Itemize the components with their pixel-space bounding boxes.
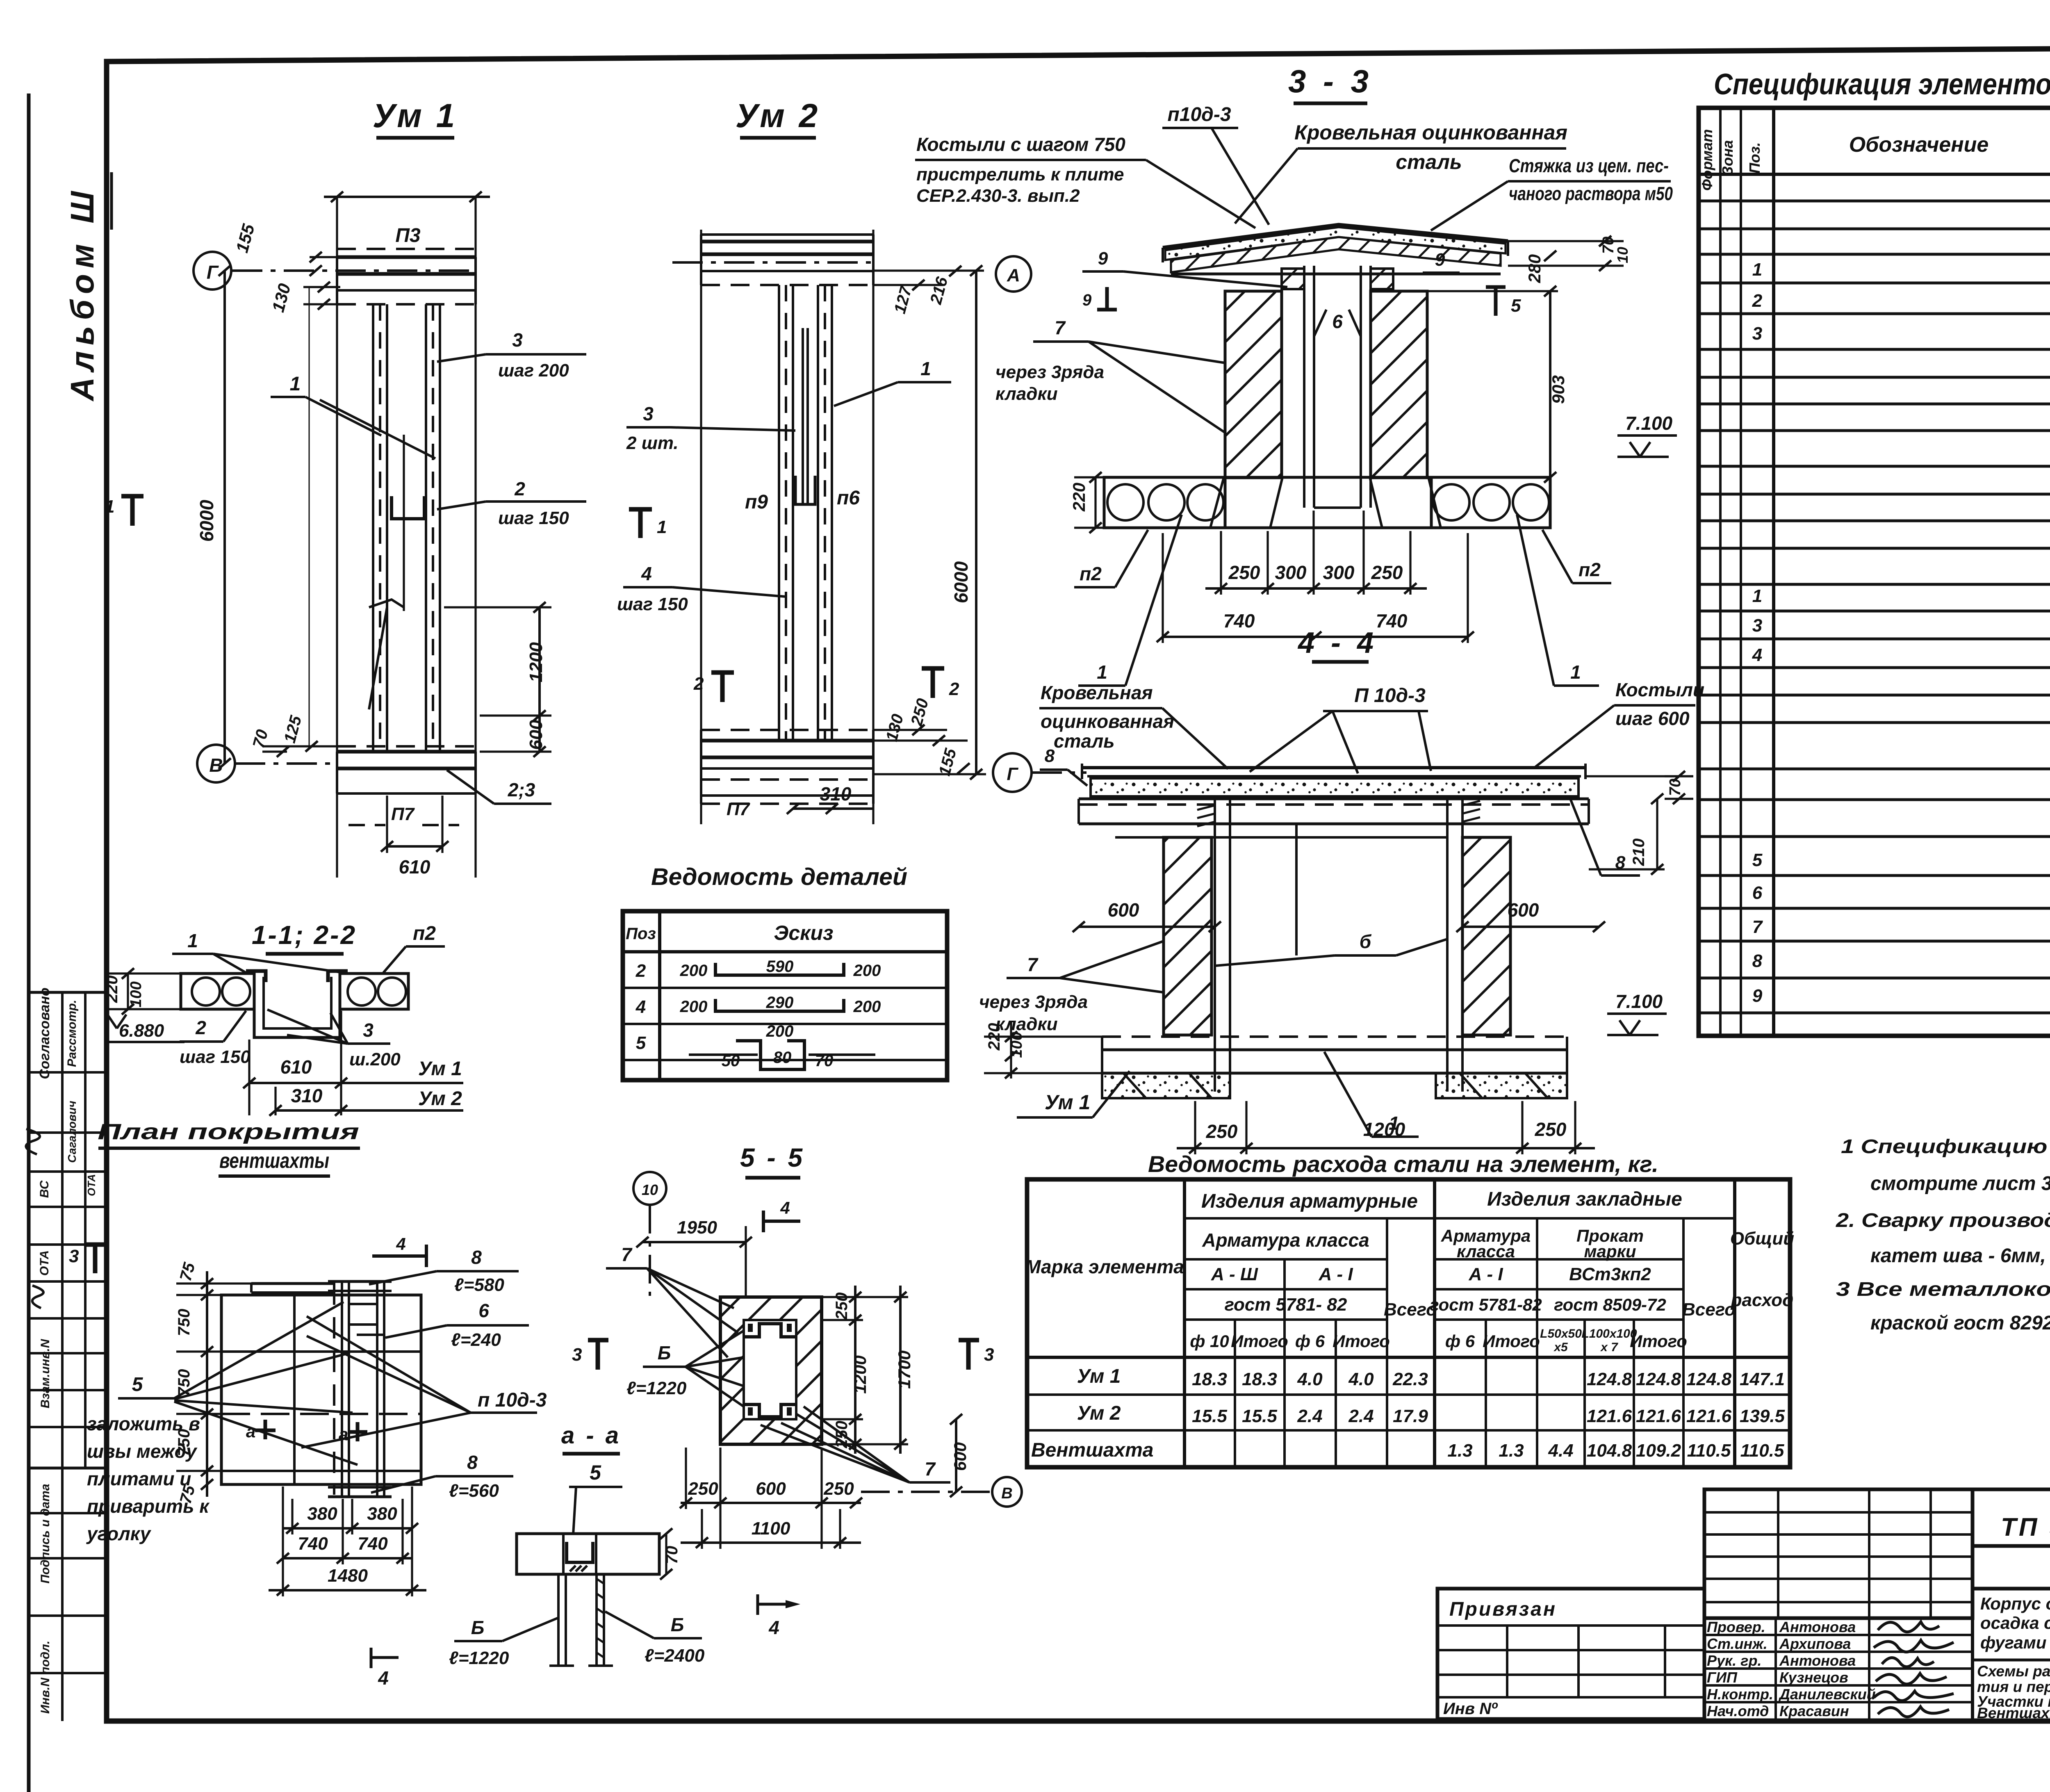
svg-text:5: 5 (1752, 850, 1763, 870)
svg-text:Общий: Общий (1730, 1229, 1794, 1249)
svg-text:6000: 6000 (950, 561, 972, 603)
svg-text:ОТА: ОТА (38, 1250, 51, 1276)
svg-text:5: 5 (1511, 296, 1521, 316)
dim 903 right (1549, 291, 1551, 477)
right dim chain 250 1200 250 (854, 1286, 856, 1454)
svg-text:1200: 1200 (850, 1355, 870, 1393)
svg-text:600: 600 (1108, 899, 1139, 921)
svg-text:2.4: 2.4 (1297, 1406, 1322, 1426)
svg-text:3: 3 (643, 403, 654, 424)
svg-text:Ум 1: Ум 1 (418, 1058, 462, 1080)
roof cap of shaft (1163, 225, 1508, 248)
svg-text:приварить к: приварить к (87, 1496, 210, 1517)
svg-text:Привязан: Привязан (1449, 1598, 1557, 1620)
svg-text:ВС: ВС (38, 1180, 51, 1198)
svg-text:а - а: а - а (561, 1422, 621, 1449)
svg-text:1: 1 (1570, 661, 1581, 683)
svg-text:740: 740 (358, 1534, 388, 1554)
Um1 dim 1200 right (538, 607, 541, 716)
section 4-4 (979, 627, 1704, 1154)
svg-text:Всего: Всего (1682, 1300, 1736, 1320)
svg-text:Эскиз: Эскиз (774, 921, 833, 944)
svg-text:7: 7 (1752, 917, 1763, 937)
svg-text:Марка элемента: Марка элемента (1025, 1256, 1184, 1277)
svg-text:Поз.: Поз. (1746, 142, 1763, 173)
svg-text:5 - 5: 5 - 5 (740, 1143, 805, 1172)
svg-text:СЕР.2.430-3. вып.2: СЕР.2.430-3. вып.2 (916, 186, 1080, 206)
rail right pair (376, 1281, 378, 1497)
svg-text:1 Спецификацию на плиты пок: 1 Спецификацию на плиты покрытия вентшах… (1841, 1136, 2050, 1158)
svg-text:х 7: х 7 (1600, 1341, 1618, 1354)
svg-text:Костыли с шагом 750: Костыли с шагом 750 (916, 134, 1125, 155)
Um2 extension lines (700, 230, 702, 824)
rail dashed line (333, 1284, 335, 1495)
plan of ventshaft cover (69, 1119, 547, 1596)
svg-text:п2: п2 (1080, 563, 1102, 584)
dim 1700 (899, 1286, 902, 1454)
Um1 top dimension line (324, 196, 490, 198)
monolithic trough (254, 974, 340, 1037)
svg-text:9: 9 (1082, 291, 1092, 309)
svg-text:15.5: 15.5 (1192, 1406, 1227, 1426)
svg-text:1: 1 (1752, 586, 1762, 606)
steel consumption table (1025, 1151, 1794, 1467)
svg-text:Корпус обезвоживания: Корпус обезвоживания (1980, 1594, 2050, 1613)
top angle strip (251, 1282, 335, 1285)
svg-text:фугами ВГШ 1001К - 01: фугами ВГШ 1001К - 01 (1980, 1633, 2050, 1652)
svg-text:Н.контр.: Н.контр. (1707, 1686, 1773, 1703)
svg-text:6000: 6000 (196, 499, 217, 542)
svg-text:2: 2 (195, 1017, 206, 1038)
svg-text:оцинкованная: оцинкованная (1041, 711, 1174, 732)
svg-text:2. Сварку производить электр: 2. Сварку производить электродами э42 го… (1836, 1210, 2050, 1231)
svg-text:плитами и: плитами и (87, 1468, 191, 1489)
svg-text:В: В (1001, 1485, 1012, 1502)
steel horizontals (1184, 1217, 1735, 1220)
bottom dim row3 1480 (269, 1589, 426, 1591)
svg-text:7: 7 (1027, 954, 1039, 975)
svg-text:121.6: 121.6 (1636, 1406, 1681, 1426)
rail end plates (328, 1280, 392, 1283)
svg-text:2: 2 (514, 478, 525, 499)
svg-text:Схемы расположения плит покры-: Схемы расположения плит покры- (1977, 1663, 2050, 1680)
dims 250 300 300 250 (1205, 587, 1427, 590)
svg-text:Ведомость деталей: Ведомость деталей (651, 864, 907, 890)
corner angles hatch (246, 971, 266, 982)
svg-text:п2: п2 (1578, 559, 1601, 580)
svg-text:п6: п6 (837, 487, 860, 509)
duct wall lines 44 (1214, 799, 1216, 1092)
svg-text:Изделия закладные: Изделия закладные (1487, 1188, 1682, 1210)
svg-text:ОТА: ОТА (85, 1174, 98, 1196)
svg-text:смотрите лист 30.: смотрите лист 30. (1870, 1173, 2050, 1195)
svg-text:Всего: Всего (1384, 1300, 1437, 1320)
svg-text:вентшахты: вентшахты (219, 1149, 329, 1173)
svg-text:шаг 200: шаг 200 (498, 360, 569, 381)
svg-text:Вентшахта: Вентшахта (1031, 1439, 1153, 1461)
svg-text:1-1; 2-2: 1-1; 2-2 (252, 920, 357, 950)
svg-text:Итого: Итого (1483, 1331, 1540, 1351)
grid circle B55 (992, 1477, 1022, 1507)
svg-text:300: 300 (1323, 562, 1355, 583)
svg-text:1: 1 (187, 930, 198, 951)
svg-text:сталь: сталь (1396, 150, 1462, 173)
svg-text:750: 750 (175, 1309, 193, 1336)
svg-text:чаного раствора м50: чаного раствора м50 (1509, 183, 1673, 204)
svg-text:200: 200 (680, 962, 708, 980)
svg-text:осадка сточных вод с 5центри: осадка сточных вод с 5центри- (1980, 1613, 2050, 1632)
svg-text:590: 590 (766, 958, 794, 976)
svg-text:250: 250 (1206, 1121, 1238, 1142)
svg-text:7: 7 (925, 1458, 936, 1480)
svg-text:L50х50: L50х50 (1540, 1327, 1582, 1341)
grid circle V (197, 745, 235, 782)
left dim chain (206, 1271, 208, 1497)
svg-text:Сагалович: Сагалович (66, 1101, 78, 1163)
svg-text:В: В (209, 755, 223, 776)
svg-text:Рассмотр.: Рассмотр. (65, 1000, 79, 1067)
Um1 right column (425, 304, 427, 752)
Um2 section mark 2 right (922, 666, 944, 671)
svg-text:8: 8 (1045, 746, 1055, 766)
svg-text:гост 5781- 82: гост 5781- 82 (1225, 1295, 1347, 1315)
svg-text:Инв.N подл.: Инв.N подл. (39, 1641, 52, 1714)
svg-text:1: 1 (1097, 661, 1107, 683)
section 5-5 (572, 1143, 1022, 1549)
duct walls below (557, 1574, 560, 1666)
svg-text:740: 740 (1223, 610, 1255, 632)
svg-text:ℓ=2400: ℓ=2400 (645, 1646, 705, 1666)
dim 600 to axis B (955, 1419, 957, 1492)
svg-text:121.6: 121.6 (1587, 1406, 1632, 1426)
section mark 3 left (84, 1243, 106, 1247)
svg-text:Ведомость расхода стали на: Ведомость расхода стали на элемент, кг. (1148, 1151, 1658, 1177)
svg-text:заложить в: заложить в (87, 1413, 200, 1434)
svg-text:18.3: 18.3 (1192, 1369, 1227, 1389)
svg-text:9: 9 (1752, 986, 1763, 1006)
svg-text:280: 280 (1525, 254, 1544, 283)
svg-text:Итого: Итого (1332, 1331, 1390, 1351)
svg-text:План покрытия: План покрытия (98, 1119, 359, 1144)
privyazan box (1437, 1589, 1704, 1719)
svg-text:3: 3 (1752, 324, 1762, 344)
svg-text:8: 8 (471, 1247, 482, 1268)
svg-text:уголку: уголку (86, 1523, 152, 1544)
svg-text:200: 200 (766, 1022, 794, 1040)
svg-text:6: 6 (478, 1300, 489, 1321)
floor slab right with cores (1431, 477, 1550, 528)
svg-text:310: 310 (820, 783, 852, 805)
svg-text:кладки: кладки (995, 384, 1058, 404)
svg-text:220: 220 (1069, 483, 1089, 512)
svg-text:Взам.инв.N: Взам.инв.N (39, 1338, 52, 1408)
svg-text:250: 250 (1535, 1119, 1567, 1140)
svg-text:250: 250 (823, 1479, 854, 1499)
svg-text:п9: п9 (745, 491, 768, 513)
Um1 wall axis thin line (309, 287, 310, 749)
svg-text:гост 8509-72: гост 8509-72 (1554, 1295, 1666, 1314)
duct walls (1303, 266, 1305, 508)
svg-text:10: 10 (1614, 247, 1631, 263)
svg-text:ℓ=1220: ℓ=1220 (626, 1378, 687, 1398)
svg-text:Обозначение: Обозначение (1849, 133, 1989, 157)
svg-text:Ум 1: Ум 1 (1045, 1091, 1090, 1114)
section marks a inside plan (255, 1429, 276, 1432)
bottom dim row2 740 740 (283, 1557, 412, 1559)
bottom dims 250 600 250 (681, 1502, 861, 1504)
svg-text:через 3ряда: через 3ряда (979, 992, 1088, 1012)
svg-text:15.5: 15.5 (1242, 1406, 1277, 1426)
svg-text:Г: Г (207, 262, 219, 283)
section mark 4 bottom left aa (371, 1656, 399, 1659)
Um1 axis line G (232, 269, 476, 272)
svg-text:2;3: 2;3 (508, 779, 535, 800)
revision grid (1704, 1489, 1973, 1618)
svg-text:210: 210 (1630, 839, 1648, 866)
Um1 dim 600 right (538, 716, 541, 752)
svg-text:2: 2 (1752, 291, 1763, 311)
svg-text:Нач.отд: Нач.отд (1707, 1703, 1769, 1719)
svg-text:3: 3 (512, 329, 523, 351)
svg-text:Рук. гр.: Рук. гр. (1707, 1652, 1762, 1669)
svg-text:шаг 150: шаг 150 (498, 508, 569, 528)
shaft left wall hatched (1225, 291, 1282, 478)
svg-text:ф 6: ф 6 (1445, 1331, 1475, 1351)
Um2 right column (817, 285, 819, 741)
svg-text:200: 200 (853, 998, 881, 1016)
svg-text:Инв Nº: Инв Nº (1443, 1700, 1498, 1718)
svg-text:Ст.инж.: Ст.инж. (1707, 1635, 1768, 1652)
svg-text:600: 600 (950, 1442, 970, 1471)
svg-text:Антонова: Антонова (1779, 1652, 1856, 1669)
svg-text:Ум 1: Ум 1 (1077, 1366, 1121, 1387)
slab bar (517, 1534, 659, 1574)
svg-text:кладки: кладки (995, 1014, 1058, 1034)
shaft right wall hatched (1371, 291, 1427, 478)
svg-text:3 Все металлоконструкции пок: 3 Все металлоконструкции покрасить масля… (1836, 1279, 2050, 1300)
svg-text:10: 10 (642, 1181, 658, 1198)
svg-text:22.3: 22.3 (1392, 1369, 1428, 1389)
vd table frame (623, 911, 947, 1080)
svg-text:Ум 1: Ум 1 (373, 97, 458, 135)
section mark 3 right (966, 1340, 971, 1370)
grid circle A (996, 256, 1031, 292)
svg-text:124.8: 124.8 (1636, 1369, 1681, 1389)
svg-text:7.100: 7.100 (1625, 413, 1673, 434)
concrete pads bottom (1102, 1073, 1230, 1098)
sheet outer edge line (27, 93, 31, 1792)
svg-text:Стяжка из цем. пес-: Стяжка из цем. пес- (1509, 155, 1669, 176)
title block (1437, 1489, 2050, 1757)
svg-text:ф 6: ф 6 (1295, 1331, 1325, 1351)
corner angles in void (744, 1324, 796, 1337)
view Um2: monolithic section elevation (617, 97, 1031, 824)
svg-text:2: 2 (693, 674, 704, 694)
svg-text:1: 1 (920, 358, 931, 379)
Um1 dashed slab edge top (337, 248, 476, 250)
svg-text:3: 3 (363, 1019, 374, 1041)
album III rotated label (64, 172, 112, 402)
embedded channel (567, 1542, 593, 1562)
svg-text:Итого: Итого (1630, 1331, 1687, 1351)
svg-text:Б: Б (658, 1342, 671, 1363)
svg-text:7.100: 7.100 (1615, 991, 1663, 1012)
bottom dim 1100 (681, 1541, 861, 1544)
svg-text:124.8: 124.8 (1686, 1369, 1732, 1389)
svg-text:А - Ш: А - Ш (1211, 1264, 1258, 1284)
svg-text:4: 4 (768, 1617, 779, 1638)
svg-text:250: 250 (1228, 562, 1260, 583)
svg-text:х5: х5 (1553, 1341, 1568, 1354)
svg-text:290: 290 (766, 994, 794, 1012)
svg-text:Кровельная: Кровельная (1041, 682, 1153, 703)
view Um1: monolithic section elevation (105, 97, 586, 878)
section mark 3 left of title (596, 1340, 600, 1370)
svg-text:380: 380 (307, 1504, 337, 1524)
Um1 left column (372, 304, 374, 752)
svg-text:Зона: Зона (1719, 140, 1736, 176)
svg-text:Г: Г (1007, 764, 1018, 784)
svg-text:1.3: 1.3 (1499, 1441, 1524, 1461)
svg-text:104.8: 104.8 (1587, 1441, 1632, 1461)
steel verticals (1183, 1179, 1186, 1467)
svg-text:ℓ=240: ℓ=240 (451, 1330, 501, 1350)
svg-text:4: 4 (378, 1667, 389, 1689)
svg-text:Согласовано: Согласовано (37, 987, 52, 1079)
svg-text:ℓ=580: ℓ=580 (454, 1275, 504, 1295)
svg-text:4.0: 4.0 (1348, 1369, 1374, 1389)
svg-text:Спецификация элементов монол: Спецификация элементов монолитных констр… (1714, 68, 2050, 101)
svg-text:Альбом Ш: Альбом Ш (64, 185, 100, 401)
svg-text:1: 1 (290, 373, 301, 395)
Um1 extension lines (336, 197, 338, 878)
svg-text:1: 1 (1752, 260, 1762, 280)
svg-text:краской гост 8292 -85 за: краской гост 8292 -85 за 2 раза. (1870, 1312, 2050, 1334)
Um1 bottom slab (337, 745, 476, 748)
svg-text:100: 100 (128, 981, 145, 1007)
svg-text:4.4: 4.4 (1548, 1441, 1573, 1461)
svg-text:шаг 150: шаг 150 (617, 594, 688, 614)
svg-text:ТП 902-5-47.87: ТП 902-5-47.87 (2001, 1513, 2050, 1541)
svg-text:А - I: А - I (1468, 1264, 1503, 1284)
svg-text:110.5: 110.5 (1687, 1441, 1731, 1461)
svg-text:Б: Б (471, 1617, 485, 1638)
spec header bottom (1699, 173, 2050, 176)
svg-text:Кузнецов: Кузнецов (1779, 1669, 1848, 1686)
section mark 4 top (372, 1254, 426, 1258)
svg-text:200: 200 (680, 998, 708, 1016)
Um1 top slab (337, 255, 476, 259)
svg-text:Б: Б (671, 1614, 684, 1635)
Um1 dim 6000 vertical (223, 271, 226, 764)
Um1 section mark 1 left (121, 494, 143, 499)
svg-text:П7: П7 (727, 799, 751, 819)
svg-text:18.3: 18.3 (1242, 1369, 1277, 1389)
svg-text:109.2: 109.2 (1636, 1441, 1681, 1461)
bottom slab 44 (1102, 1035, 1567, 1038)
Um1 slope mark (369, 600, 404, 607)
svg-text:ГИП: ГИП (1707, 1669, 1738, 1686)
svg-text:L100х100: L100х100 (1581, 1327, 1637, 1341)
Um2 top slab (701, 233, 873, 236)
dim 600 right (1462, 926, 1599, 928)
dims 740 740 (1163, 636, 1468, 638)
grid circle G (194, 252, 231, 290)
shaft walls 44 (1164, 837, 1212, 1035)
svg-text:ф 10: ф 10 (1190, 1331, 1229, 1351)
svg-text:147.1: 147.1 (1740, 1369, 1785, 1389)
svg-text:380: 380 (367, 1504, 397, 1524)
svg-text:610: 610 (399, 856, 430, 878)
svg-text:Подпись и дата: Подпись и дата (39, 1484, 52, 1583)
svg-text:4: 4 (780, 1198, 790, 1217)
section mark 4 right aa (758, 1603, 786, 1606)
svg-text:А: А (1007, 265, 1020, 285)
svg-text:П3: П3 (395, 225, 421, 246)
svg-text:1700: 1700 (895, 1350, 914, 1388)
TP cell (1973, 1489, 2050, 1546)
svg-text:250: 250 (688, 1479, 718, 1499)
svg-text:Красавин: Красавин (1779, 1703, 1849, 1719)
svg-text:740: 740 (298, 1534, 328, 1554)
svg-text:1.3: 1.3 (1447, 1441, 1472, 1461)
roof band 44 (1082, 766, 1585, 769)
svg-text:8: 8 (1752, 951, 1763, 971)
monolithic insert under walls (1225, 476, 1431, 479)
notes (1836, 1136, 2050, 1334)
svg-text:через 3ряда: через 3ряда (995, 362, 1104, 382)
svg-text:70: 70 (1667, 779, 1684, 796)
svg-text:2: 2 (635, 961, 646, 981)
grid circle 10 (633, 1172, 666, 1205)
svg-text:5: 5 (132, 1374, 143, 1395)
svg-text:5: 5 (590, 1461, 601, 1484)
svg-text:сталь: сталь (1054, 730, 1115, 752)
svg-text:121.6: 121.6 (1686, 1406, 1732, 1426)
detail list table Vedomost detaley (623, 864, 947, 1080)
svg-text:гост 5781-82: гост 5781-82 (1430, 1295, 1542, 1314)
svg-text:4: 4 (635, 997, 646, 1017)
svg-text:п 10д-3: п 10д-3 (478, 1389, 547, 1411)
5-5 body hatched (720, 1297, 822, 1444)
svg-text:расход: расход (1731, 1290, 1794, 1310)
floor slab left with cores (1104, 477, 1225, 528)
svg-text:Данилевский: Данилевский (1778, 1686, 1876, 1703)
Um2 dim 310 (793, 807, 873, 810)
svg-text:4: 4 (641, 563, 652, 584)
spec table outer (1699, 108, 2050, 1036)
5-5 inner void (744, 1320, 796, 1419)
section 3-3 (915, 63, 1677, 686)
svg-text:п2: п2 (413, 923, 436, 944)
grid circle G 44 (993, 753, 1032, 792)
svg-text:610: 610 (280, 1056, 312, 1078)
svg-text:п10д-3: п10д-3 (1167, 104, 1231, 125)
svg-text:200: 200 (853, 962, 881, 980)
left stamp sidebar (26, 987, 107, 1721)
svg-text:а: а (246, 1422, 255, 1441)
dim 310 Um2 (276, 1109, 341, 1112)
spec column lines (1719, 108, 1722, 1036)
svg-text:17.9: 17.9 (1393, 1406, 1428, 1426)
dims 250 1200 250 bottom 44 (1177, 1147, 1595, 1149)
svg-text:2.4: 2.4 (1348, 1406, 1373, 1426)
svg-text:а: а (339, 1425, 348, 1444)
svg-text:Костыли: Костыли (1615, 679, 1704, 700)
svg-text:1100: 1100 (752, 1518, 790, 1539)
svg-text:П7: П7 (391, 804, 415, 824)
svg-text:3: 3 (984, 1345, 994, 1365)
